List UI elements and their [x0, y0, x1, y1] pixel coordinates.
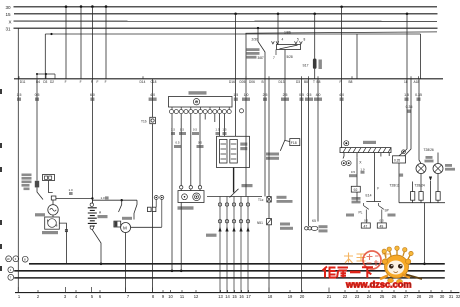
battery [90, 203, 93, 206]
generator G [48, 205, 58, 215]
svg-text:0.5: 0.5 [193, 128, 198, 132]
wire x411 [405, 79, 412, 156]
frame mid edge [356, 34, 358, 79]
mascot ears [382, 259, 387, 264]
svg-text:F: F [97, 80, 99, 84]
svg-text:SP: SP [385, 209, 389, 213]
mid wire labels [171, 128, 227, 145]
svg-text:M: M [123, 225, 127, 230]
wire x269 T1c N51 [268, 79, 270, 293]
svg-text:1.5: 1.5 [215, 128, 220, 132]
wire bus15 to fuse S17 [314, 14, 316, 59]
svg-text:11: 11 [180, 294, 185, 299]
igniter pin wires [171, 114, 173, 271]
svg-text:18: 18 [404, 80, 408, 84]
ignition switch bar [340, 141, 391, 153]
svg-text:30: 30 [6, 5, 12, 10]
svg-text:19: 19 [288, 294, 293, 299]
coil feed wire x235 [235, 79, 237, 137]
bus 31 [14, 27, 438, 29]
wire from bus30 x92 battery feed [91, 7, 93, 203]
fuse holder box [43, 175, 55, 181]
N51 resistor [267, 219, 272, 225]
wire x318 [317, 79, 319, 222]
svg-text:D3: D3 [43, 80, 47, 84]
wire bus15 to relay pin [277, 14, 279, 45]
svg-text:13: 13 [218, 294, 223, 299]
svg-text:0.5: 0.5 [364, 218, 369, 222]
watermark red CN char ku [337, 268, 348, 278]
svg-text:16: 16 [239, 294, 244, 299]
wire x301 [301, 79, 303, 293]
horizontal link to battery [56, 197, 93, 199]
track ticks [18, 287, 329, 293]
svg-text:N51: N51 [257, 221, 263, 225]
WM [323, 246, 423, 290]
svg-text:K5: K5 [312, 219, 316, 223]
igniter label [189, 91, 207, 94]
svg-text:PL: PL [359, 211, 363, 215]
svg-text:B8: B8 [349, 80, 353, 84]
voltage regulator [45, 217, 60, 229]
svg-text:27: 27 [404, 294, 409, 299]
distributor pins [180, 186, 183, 189]
svg-text:32: 32 [456, 294, 460, 299]
svg-text:12: 12 [194, 294, 199, 299]
svg-text:20: 20 [300, 294, 305, 299]
svg-text:T1b: T1b [141, 120, 147, 124]
watermark red CN char yi [350, 271, 361, 274]
wire x37 with inline box [36, 79, 38, 181]
svg-text:D13: D13 [279, 80, 285, 84]
ground bus 1 [29, 263, 445, 265]
battery ground strap [92, 229, 101, 263]
junction dots bus15 [234, 13, 237, 16]
svg-text:D05: D05 [240, 80, 246, 84]
box 49 [377, 223, 386, 228]
box 47 [361, 223, 370, 228]
svg-text:31: 31 [449, 294, 454, 299]
wire x308 solenoid [308, 79, 310, 226]
wire track1 from bus31 [17, 28, 19, 292]
svg-text:B8: B8 [317, 80, 321, 84]
svg-text:17: 17 [246, 294, 251, 299]
coil HT wire [233, 168, 235, 193]
svg-text:6.0: 6.0 [90, 93, 95, 97]
relay J81 contact box [277, 45, 301, 50]
ignition coil container [217, 136, 250, 167]
frame right edge [420, 34, 422, 79]
svg-text:1.5: 1.5 [404, 93, 409, 97]
right column wire x407 connector [399, 149, 407, 156]
svg-text:D16: D16 [229, 80, 235, 84]
relay J81 feed 2/30 [258, 28, 265, 79]
svg-text:S17: S17 [303, 64, 309, 68]
generator wire connector [51, 196, 56, 200]
svg-text:30: 30 [440, 294, 445, 299]
wire from bus30 to rail x81 [80, 7, 82, 79]
wire colour smudges below rail [17, 98, 21, 101]
mascot arm with pen [402, 275, 410, 278]
E14 wire [374, 157, 376, 202]
wire 23 to emergency switch [356, 158, 358, 187]
svg-text:F18: F18 [291, 141, 297, 145]
wire from bus15 to rail x235 [235, 14, 237, 79]
svg-text:F: F [65, 80, 67, 84]
rail [14, 78, 443, 80]
charge lamp text [426, 156, 433, 159]
relay J81 name smudge [247, 48, 260, 51]
svg-text:1.5: 1.5 [233, 93, 238, 97]
svg-text:5: 5 [297, 38, 299, 42]
ignition switch terminals [344, 141, 349, 146]
svg-text:28: 28 [417, 294, 422, 299]
svg-text:22: 22 [343, 294, 348, 299]
svg-text:15: 15 [232, 294, 237, 299]
svg-text:0.5: 0.5 [180, 128, 185, 132]
svg-text:25: 25 [380, 294, 385, 299]
distributor rotor [230, 189, 239, 198]
svg-text:1/86: 1/86 [284, 31, 291, 35]
svg-text:1.0: 1.0 [69, 188, 74, 192]
junction dots bus30 [65, 5, 68, 8]
igniter pins [169, 107, 243, 114]
svg-text:4: 4 [282, 38, 284, 42]
svg-text:T1c: T1c [258, 198, 264, 202]
distributor box [178, 191, 204, 203]
svg-text:5/28: 5/28 [287, 55, 293, 59]
PL SP switches [366, 201, 381, 203]
svg-text:47: 47 [364, 224, 368, 228]
svg-text:4.0: 4.0 [339, 93, 344, 97]
svg-text:0.5: 0.5 [175, 141, 180, 145]
svg-text:0.35: 0.35 [415, 93, 422, 97]
mascot eyes [389, 264, 394, 269]
svg-text:D06: D06 [249, 80, 255, 84]
svg-text:18: 18 [268, 294, 273, 299]
svg-text:10: 10 [6, 257, 10, 261]
rail labels [20, 80, 420, 84]
svg-text:0.5: 0.5 [380, 218, 385, 222]
generator to regulator [52, 215, 54, 217]
rail bracket D4-D2 [37, 74, 55, 79]
svg-text:B: B [262, 80, 264, 84]
svg-text:A18: A18 [414, 80, 420, 84]
svg-text:T28/11: T28/11 [390, 184, 400, 188]
track numbers [18, 294, 460, 299]
lamp2 oil pressure [437, 153, 439, 164]
svg-text:D14: D14 [140, 80, 146, 84]
bus 30 [14, 6, 438, 8]
svg-text:2/30: 2/30 [252, 38, 259, 42]
ground bus 2 [14, 270, 445, 272]
mascot face [387, 261, 404, 275]
regulator ground wire [59, 223, 66, 264]
lamp1 charge indicator [419, 79, 421, 164]
svg-text:0.35: 0.35 [394, 158, 400, 162]
svg-text:1.5: 1.5 [222, 128, 227, 132]
svg-text:92: 92 [354, 188, 358, 192]
left fusebox text smudge [22, 174, 32, 177]
wire from bus30 to rail x66 [65, 7, 67, 79]
svg-text:C18: C18 [151, 80, 157, 84]
svg-text:49: 49 [380, 224, 384, 228]
relay J81 pin arrows [272, 41, 303, 44]
arrow wire x430 [429, 177, 432, 182]
F18 switch [280, 79, 285, 151]
ground bus 3 [14, 277, 445, 279]
svg-text:15: 15 [6, 12, 12, 17]
spark plug rail [207, 196, 262, 198]
svg-text:F: F [377, 187, 379, 191]
svg-text:1.0: 1.0 [101, 196, 106, 200]
svg-text:D3: D3 [296, 80, 300, 84]
wire bus15 x407 [406, 14, 408, 149]
watermark ghost orange text [344, 252, 390, 264]
svg-text:14: 14 [225, 294, 230, 299]
svg-text:F: F [105, 80, 107, 84]
svg-text:7: 7 [273, 56, 275, 60]
track scale line [15, 292, 460, 294]
svg-text:31: 31 [6, 27, 12, 32]
svg-text:D11: D11 [20, 80, 26, 84]
svg-text:F: F [91, 80, 93, 84]
starter connector squares [148, 207, 152, 211]
svg-text:E14: E14 [366, 194, 372, 198]
bus X [14, 20, 438, 22]
wire from bus30 to rail x106 [105, 7, 107, 79]
svg-text:23: 23 [355, 294, 360, 299]
wire gauge labels below rail [17, 93, 422, 109]
mascot head body [385, 255, 409, 278]
mascot crown [382, 246, 413, 259]
frame top line y34 [45, 33, 420, 35]
svg-text:X: X [9, 19, 12, 24]
ground terminal circles [6, 256, 12, 262]
svg-text:0.5: 0.5 [351, 170, 356, 174]
svg-text:1.0: 1.0 [360, 167, 365, 171]
box 92 [351, 186, 360, 192]
svg-text:8: 8 [304, 38, 306, 42]
rail terminal ticks [19, 76, 419, 79]
spark plug label [206, 234, 217, 237]
svg-text:3/87: 3/87 [258, 56, 264, 60]
inner feed line y33 [246, 32, 438, 33]
svg-text:10: 10 [168, 294, 173, 299]
svg-text:24: 24 [367, 294, 372, 299]
svg-text:21: 21 [327, 294, 332, 299]
wire x246 [245, 33, 247, 196]
resistor on x412 [412, 182, 414, 192]
fuse S17 [313, 59, 317, 69]
svg-text:T28/24: T28/24 [415, 184, 425, 188]
distributor ground wire [180, 203, 182, 271]
mascot mouth [394, 272, 398, 273]
wire bus30 to ignition switch x341 [341, 7, 343, 148]
page edge marks [0, 89, 2, 94]
battery junction [91, 197, 93, 199]
svg-text:1.5: 1.5 [171, 128, 176, 132]
watermark red stamp circle [363, 251, 381, 269]
wire x265 [264, 79, 266, 197]
svg-text:T28/26: T28/26 [424, 148, 434, 152]
svg-text:26: 26 [392, 294, 397, 299]
svg-text:F: F [80, 80, 82, 84]
BOT [0, 89, 460, 299]
svg-text:29: 29 [429, 294, 434, 299]
spark plug wires [218, 197, 249, 293]
resistor bottom bus [399, 202, 445, 204]
starter switch diagonals [119, 200, 122, 212]
mascot feet [388, 278, 394, 282]
svg-text:T: T [313, 80, 315, 84]
starter motor M [114, 221, 121, 227]
igniter box [169, 97, 233, 108]
watermark red CN char xia [362, 267, 373, 278]
svg-text:B8: B8 [304, 80, 308, 84]
bus 15 [14, 13, 438, 15]
svg-text:1.5: 1.5 [17, 93, 22, 97]
frame left edge [44, 34, 46, 79]
svg-text:www.dzsc.com: www.dzsc.com [345, 280, 412, 290]
svg-text:0.5: 0.5 [307, 93, 312, 97]
svg-text:0.35: 0.35 [406, 105, 413, 109]
svg-text:0.5: 0.5 [198, 141, 203, 145]
svg-text:F: F [340, 80, 342, 84]
svg-text:D2: D2 [50, 80, 54, 84]
T1b connector on x152 [152, 79, 154, 118]
watermark red CN char wei [323, 267, 374, 278]
